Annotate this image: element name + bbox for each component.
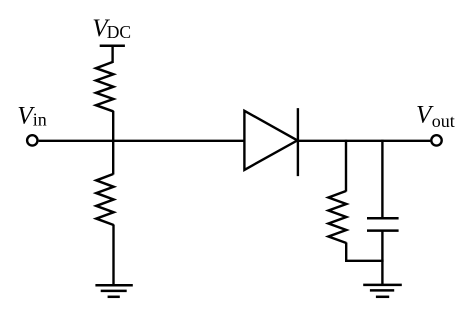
wire R1 to node A [112,111,114,141]
resistor R2 [96,174,113,225]
ground G1 [95,285,132,297]
resistor R3 [329,191,347,243]
svg-text:in: in [33,110,47,130]
power terminal bar VDC [100,45,125,48]
wire V_in to diode anode [39,140,245,142]
wire node B to R3 [345,140,347,192]
wire R3 to bottom node [345,243,347,263]
wire node B to C1 top plate [381,140,383,219]
diode D1 cathode bar [297,108,299,176]
resistor R1 [96,62,113,111]
capacitor C1 [367,218,399,230]
bottom wire R3 to C1 [345,260,384,262]
wire C1 to ground [381,231,383,286]
wire VDC bar to R1 [111,46,113,63]
svg-text:DC: DC [107,22,131,42]
svg-text:out: out [432,111,455,131]
output terminal V_out [431,135,441,145]
wire R2 to ground [112,225,114,286]
label V_DC [92,15,131,42]
wire node A to R2 [112,140,114,175]
input terminal V_in [27,135,37,145]
wire diode to V_out [298,140,431,142]
label V_out [416,102,455,132]
label V_in [17,102,47,129]
ground G2 [363,285,402,297]
diode D1 triangle [244,111,297,170]
